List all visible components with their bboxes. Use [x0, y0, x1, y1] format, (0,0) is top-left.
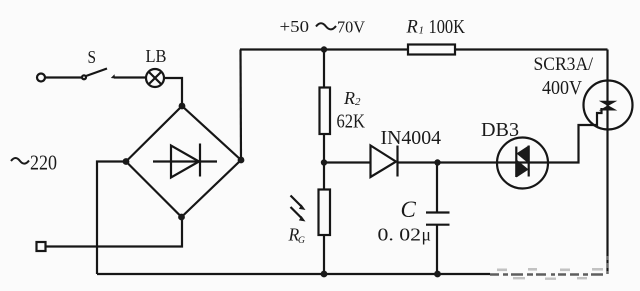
- node dot capacitor top: [434, 159, 440, 165]
- triac SCR circle: [584, 81, 633, 130]
- light arrow 1: [291, 196, 302, 207]
- svg-text:220: 220: [30, 151, 57, 175]
- svg-text:1: 1: [419, 25, 425, 37]
- label tilde 50-70: [316, 23, 336, 29]
- svg-text:R: R: [343, 88, 355, 108]
- capacitor C bottom plate: [426, 224, 450, 226]
- terminal T1 circle: [37, 74, 45, 82]
- bridge rectifier diamond: [126, 106, 241, 217]
- node dot bridge bottom: [178, 214, 185, 221]
- diac DB3 top triangle: [516, 146, 528, 164]
- wire top rail right segment: [454, 48, 608, 50]
- switch S blade: [86, 69, 107, 77]
- diac DB3 left bar: [515, 147, 517, 178]
- wire top rail left segment: [240, 48, 409, 50]
- svg-text:SCR3A/: SCR3A/: [534, 54, 594, 75]
- wire diode to DB3: [398, 161, 548, 163]
- svg-text:R: R: [406, 17, 418, 37]
- node dot bridge right: [238, 157, 245, 164]
- node dot capacitor bottom rail: [434, 271, 441, 278]
- svg-text:μ: μ: [422, 225, 431, 245]
- svg-text:G: G: [298, 236, 305, 246]
- wire T1 to switch: [45, 76, 82, 78]
- diac DB3 right bar: [528, 146, 530, 177]
- photoresistor RG: [319, 190, 331, 236]
- capacitor C bottom lead: [436, 225, 438, 274]
- wire left vertical from bridge left node: [97, 162, 126, 275]
- diac DB3 bottom triangle: [516, 160, 528, 178]
- wire DB3 to triac gate: [547, 108, 602, 163]
- label ~220 tilde: [11, 158, 29, 164]
- diode IN4004 cathode bar: [396, 146, 398, 177]
- terminal T2 square: [37, 242, 46, 251]
- node dot RG bottom rail: [321, 271, 328, 278]
- node dot bridge top: [179, 103, 186, 110]
- svg-text:62K: 62K: [337, 110, 366, 132]
- node dot R2/RG junction: [321, 159, 327, 165]
- lamp LB cross: [149, 72, 162, 85]
- lamp LB circle: [146, 69, 164, 87]
- svg-text:2: 2: [355, 96, 361, 108]
- switch S pivot: [82, 75, 86, 79]
- capacitor C top lead: [436, 163, 438, 213]
- light arrow 2: [291, 207, 302, 218]
- node dot bridge left: [123, 158, 130, 165]
- svg-text:70V: 70V: [337, 17, 366, 36]
- wire R2 to node: [323, 134, 325, 163]
- svg-text:100K: 100K: [429, 16, 466, 38]
- resistor R2: [320, 88, 331, 135]
- wire top rail to R2: [323, 50, 325, 89]
- wire right drop to bottom rail: [606, 50, 608, 275]
- wire switch to lamp: [114, 76, 146, 78]
- svg-text:+50: +50: [280, 17, 310, 36]
- wire lamp to bridge top node: [164, 78, 182, 106]
- svg-text:C: C: [401, 197, 417, 222]
- wire node to diode IN4004: [324, 161, 371, 163]
- bridge diode triangle: [171, 146, 199, 178]
- wire bridge right node to top rail: [239, 50, 242, 161]
- svg-text:400V: 400V: [542, 77, 582, 99]
- switch S contact: [111, 74, 115, 78]
- svg-text:IN4004: IN4004: [381, 128, 442, 149]
- diac DB3 circle: [497, 138, 548, 189]
- watermark: [490, 256, 608, 280]
- wire bottom rail: [97, 273, 490, 275]
- capacitor C top plate: [426, 211, 450, 213]
- svg-text:LB: LB: [146, 46, 167, 66]
- wire node to photoresistor: [323, 163, 325, 191]
- wire T2 to bridge bottom node: [46, 217, 183, 247]
- triac symbol: [599, 101, 618, 106]
- wire photoresistor to bottom rail: [323, 235, 325, 274]
- node dot top rail / R2: [321, 46, 327, 52]
- resistor R1: [408, 45, 455, 55]
- bridge diode horizontal line: [153, 160, 217, 162]
- svg-text:DB3: DB3: [481, 120, 519, 141]
- svg-text:S: S: [88, 47, 97, 67]
- svg-text:0. 02: 0. 02: [378, 225, 422, 245]
- bridge diode cathode bar: [199, 144, 201, 177]
- diode IN4004 triangle: [371, 146, 397, 178]
